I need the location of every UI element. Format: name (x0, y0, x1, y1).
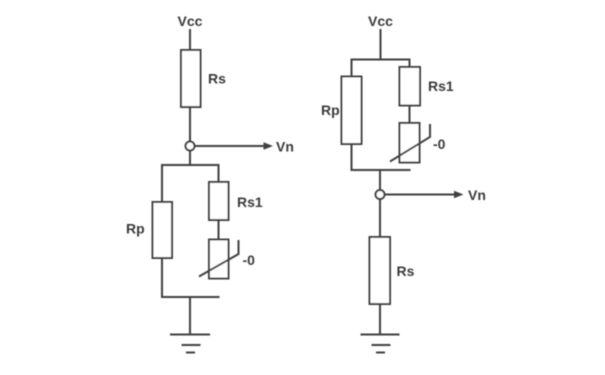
resistor Rs (right) (370, 237, 391, 304)
wire bottom bar to node (right) (379, 170, 381, 190)
wire parallel bottom bar (right) (351, 169, 411, 171)
wire Rs to node (left) (189, 107, 191, 141)
wire Rp to bottom bar (left) (161, 258, 163, 298)
node Vn junction (right) (376, 190, 385, 199)
svg-text:Rs1: Rs1 (428, 78, 454, 94)
wire top bar to Rs1 (right) (409, 59, 411, 68)
resistor Rs1 (left) (209, 182, 229, 220)
svg-text:Rp: Rp (321, 102, 340, 118)
node Vn junction (left) (186, 142, 195, 151)
wire parallel top bar (left) (161, 164, 220, 166)
wire parallel bottom bar (left) (161, 296, 220, 298)
wire Rs1 to thermistor (left) (218, 220, 220, 240)
svg-text:Vcc: Vcc (178, 13, 203, 29)
wire Vcc to Rs (left) (189, 29, 191, 51)
wire parallel top bar (right) (351, 59, 411, 61)
svg-text:Rp: Rp (126, 221, 145, 237)
resistor Rs (left) (181, 50, 201, 107)
wire node to Rs (right) (379, 200, 381, 239)
wire node to parallel top bar (left) (189, 151, 191, 166)
svg-text:Rs1: Rs1 (237, 194, 263, 210)
wire top bar to Rp (right) (351, 59, 353, 78)
svg-text:Vcc: Vcc (368, 13, 393, 29)
svg-text:Rs: Rs (208, 71, 226, 87)
wire node to Vn arrow (left) (195, 145, 266, 147)
svg-text:Rs: Rs (397, 263, 415, 279)
wire Rp to bottom bar (right) (351, 144, 353, 171)
svg-text:-0: -0 (243, 252, 256, 268)
svg-text:-0: -0 (433, 136, 446, 152)
wire top bar to Rs1 (left) (218, 164, 220, 183)
wire bottom bar to ground (left) (189, 297, 191, 335)
thermistor diagonal stroke (left) (199, 240, 239, 277)
resistor Rp (left) (153, 202, 173, 258)
wire node to Vn arrow (right) (385, 194, 456, 196)
wire top bar to Rp (left) (161, 164, 163, 203)
thermistor body (left) (209, 240, 229, 279)
resistor Rs1 (right) (400, 67, 421, 106)
wire Rs to ground (right) (379, 304, 381, 335)
wire Vcc to parallel top bar (right) (380, 29, 382, 60)
thermistor body (right) (400, 123, 420, 163)
arrowhead Vn (left) (264, 142, 274, 149)
wire Rs1 to thermistor (right) (409, 106, 411, 124)
arrowhead Vn (right) (454, 191, 464, 198)
thermistor diagonal stroke (right) (390, 124, 430, 162)
svg-text:Vn: Vn (276, 139, 294, 155)
ground (left) (170, 334, 210, 336)
svg-text:Vn: Vn (468, 187, 486, 203)
ground (right) (361, 334, 400, 336)
resistor Rp (right) (342, 77, 362, 145)
